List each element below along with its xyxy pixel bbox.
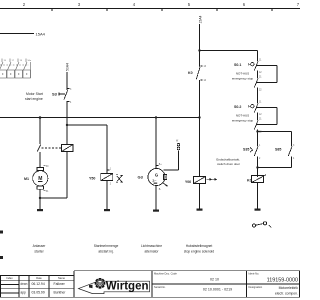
svg-text:06.12.94: 06.12.94 (32, 282, 45, 286)
svg-text:K0: K0 (247, 179, 252, 183)
svg-text:13: 13 (204, 66, 207, 68)
svg-text:Endschaltkontakt.: Endschaltkontakt. (216, 158, 240, 162)
svg-text:50a: 50a (28, 60, 32, 62)
svg-text:Name: Name (58, 276, 65, 280)
svg-text:19: 19 (20, 60, 23, 62)
svg-text:S0.1: S0.1 (234, 63, 241, 67)
svg-text:emergency stop: emergency stop (232, 77, 254, 81)
svg-text:G: G (155, 173, 158, 178)
svg-text:17: 17 (12, 60, 15, 62)
svg-text:2: 2 (110, 184, 112, 186)
svg-text:7: 7 (297, 2, 300, 7)
svg-text:G3: G3 (138, 175, 144, 180)
svg-text:15: 15 (4, 60, 7, 62)
svg-text:02 10: 02 10 (210, 278, 219, 282)
svg-text:Falkner: Falkner (54, 282, 66, 286)
svg-text:app: app (21, 291, 27, 295)
svg-text:abstart inj.: abstart inj. (98, 250, 113, 254)
svg-text:K0: K0 (188, 71, 193, 75)
svg-text:NOT-AUS: NOT-AUS (236, 72, 249, 76)
svg-text:15A4: 15A4 (198, 15, 202, 23)
svg-text:03.05.99: 03.05.99 (32, 291, 45, 295)
svg-text:1: 1 (259, 145, 261, 147)
svg-text:Designation: Designation (249, 285, 263, 289)
svg-text:21: 21 (259, 119, 262, 121)
svg-text:12: 12 (259, 72, 262, 74)
svg-text:B-: B- (159, 189, 162, 191)
svg-text:stop engine solenoid: stop engine solenoid (184, 250, 214, 254)
svg-text:2: 2 (23, 2, 26, 7)
svg-text:Wirtgen: Wirtgen (106, 280, 149, 292)
svg-text:31: 31 (46, 191, 49, 193)
svg-text:emergency stop: emergency stop (232, 119, 254, 123)
svg-text:6: 6 (243, 2, 246, 7)
svg-text:3~: 3~ (152, 179, 157, 183)
svg-text:02 10.0001 - 0219: 02 10.0001 - 0219 (203, 287, 232, 291)
svg-text:11: 11 (259, 60, 262, 62)
svg-text:Machine Doc. Code: Machine Doc. Code (154, 272, 177, 276)
svg-text:Y50: Y50 (89, 177, 95, 181)
svg-text:switch drum door: switch drum door (217, 162, 240, 166)
svg-text:Bunther: Bunther (54, 291, 67, 295)
svg-text:S0.2: S0.2 (234, 105, 241, 109)
svg-text:3: 3 (78, 2, 81, 7)
svg-text:4: 4 (293, 158, 295, 160)
svg-text:Hubabstellmagnet: Hubabstellmagnet (186, 244, 213, 248)
svg-text:Ident-No.: Ident-No. (249, 272, 260, 276)
svg-text:Motor Start: Motor Start (26, 92, 43, 96)
svg-text:start engine: start engine (25, 97, 43, 101)
svg-text:B+: B+ (159, 164, 163, 166)
svg-text:4: 4 (70, 102, 72, 104)
svg-text:4: 4 (133, 2, 136, 7)
svg-text:M1: M1 (24, 177, 29, 181)
svg-text:drwn: drwn (21, 282, 28, 286)
svg-text:3: 3 (70, 89, 72, 91)
svg-text:30: 30 (46, 166, 49, 168)
svg-text:Date: Date (36, 276, 42, 280)
svg-text:W: W (176, 141, 179, 143)
svg-text:M: M (38, 176, 42, 182)
svg-text:Startmehrmenge: Startmehrmenge (94, 244, 119, 248)
svg-text:Index: Index (6, 276, 13, 280)
svg-text:S35: S35 (243, 148, 249, 152)
svg-text:14: 14 (204, 80, 207, 82)
svg-text:21: 21 (259, 77, 262, 79)
svg-text:NOT-AUS: NOT-AUS (236, 114, 249, 118)
svg-text:15A4: 15A4 (36, 31, 46, 36)
svg-text:S85: S85 (275, 148, 281, 152)
svg-text:119159-0000: 119159-0000 (267, 277, 298, 283)
svg-text:5: 5 (188, 2, 191, 7)
svg-text:alternator: alternator (145, 250, 160, 254)
svg-text:Anlasser: Anlasser (33, 244, 47, 248)
svg-text:Serial-No.: Serial-No. (154, 285, 166, 289)
svg-text:Motorelektrik: Motorelektrik (279, 286, 299, 290)
svg-text:Y06: Y06 (185, 180, 191, 184)
svg-text:11: 11 (259, 102, 262, 104)
svg-text:Lichtmaschine: Lichtmaschine (141, 244, 162, 248)
svg-text:22: 22 (259, 90, 262, 92)
svg-text:50A4: 50A4 (65, 63, 69, 71)
svg-text:electr. compon.: electr. compon. (275, 292, 298, 296)
svg-text:3: 3 (293, 145, 295, 147)
svg-text:1: 1 (110, 169, 112, 171)
svg-text:2: 2 (259, 158, 261, 160)
svg-text:starter: starter (34, 250, 44, 254)
svg-text:12: 12 (259, 114, 262, 116)
svg-text:S3: S3 (52, 92, 58, 97)
